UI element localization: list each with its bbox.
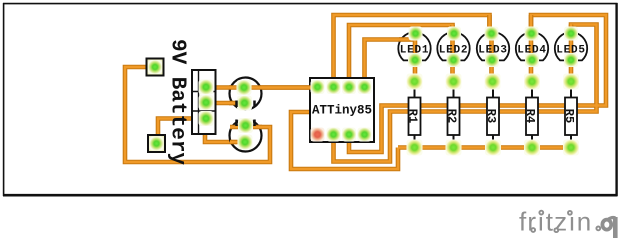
- wire: cap C2 feedthrough re-draw: [230, 140, 245, 145]
- pad: IC top 4: [358, 80, 372, 94]
- wire: battery pad1 to IC pin (net V+) through cap C1 top pad: [206, 85, 318, 90]
- pad: square A center: [148, 60, 162, 74]
- wire: cap C2 feedthrough re-draw: [230, 141, 245, 143]
- wire: LED1 internal: [413, 36, 418, 81]
- resistor R2: [445, 81, 460, 147]
- svg-text:9V Battery: 9V Battery: [166, 39, 189, 165]
- LED2 body: [437, 32, 469, 60]
- wire: resistor common rail: [398, 145, 571, 150]
- square pad A: [147, 59, 164, 76]
- IC U1 ATTiny85 body: [310, 78, 374, 142]
- svg-text:LED1: LED1: [400, 45, 430, 57]
- wire: IC pad2 bottom to LED5 via right side run: [334, 25, 597, 162]
- LED4 body: [516, 32, 548, 60]
- pad: IC bottom 4: [358, 128, 372, 142]
- pad: cap C2 bottom: [238, 135, 253, 150]
- wire: LED3 internal: [488, 15, 490, 34]
- wire: resistor common rail: [398, 146, 571, 148]
- resistor R3: [484, 81, 499, 147]
- pad: square B center: [150, 137, 164, 151]
- LED bodies (circle with flat bottom): [398, 32, 587, 60]
- pad: LED5 pads: [564, 27, 578, 41]
- board frame border: [3, 3, 618, 196]
- wire: battery pad2 to cap C1 bottom pad: [206, 102, 244, 104]
- wire: LED5 internal: [569, 25, 574, 82]
- pad: IC top 3: [342, 80, 356, 94]
- wire: LED1 internal: [414, 36, 416, 81]
- wire: IC top pad3 to LED2: [349, 25, 453, 87]
- wire: IC pad3 bottom to LED4 via outer right run: [349, 15, 606, 152]
- svg-text:LED3: LED3: [478, 45, 508, 57]
- wire: LED5 internal: [570, 25, 572, 82]
- svg-text:LED2: LED2: [439, 45, 469, 57]
- wire: LED1 feed re-draw: [399, 38, 415, 40]
- pad: IC bottom 1 (pin1, unrouted red): [311, 128, 325, 142]
- pad: LED4 pads: [525, 27, 539, 41]
- wire: IC top pad4 to LED1: [365, 40, 416, 88]
- capacitor C1 body: [230, 78, 262, 110]
- svg-text:R5: R5: [562, 109, 576, 123]
- svg-text:ATTiny85: ATTiny85: [312, 104, 372, 118]
- battery connector J1 body: [192, 70, 216, 134]
- pad: battery 2: [199, 95, 214, 110]
- pad: IC top 2: [327, 80, 341, 94]
- svg-text:R3: R3: [484, 109, 498, 123]
- pad: cap C2 top: [238, 118, 253, 133]
- g stem: [613, 217, 618, 238]
- wire: LED2 internal: [451, 25, 453, 81]
- pad: IC bottom 3: [342, 128, 356, 142]
- capacitor C2 body: [230, 120, 262, 152]
- wire: battery pad2 to cap C1 bottom pad: [206, 101, 244, 106]
- wire: LED2 internal: [450, 25, 455, 81]
- pad: LED1 anode / cathode / junction: [409, 27, 423, 41]
- wire: pad B up and to battery pad3: [158, 119, 205, 137]
- pad: battery 1: [199, 80, 214, 95]
- g bowl: [602, 220, 611, 230]
- pad: LED2 pads: [447, 27, 461, 41]
- z foot ring: [554, 228, 558, 232]
- wire: pad B up and to battery pad3: [158, 119, 205, 137]
- svg-text:LED5: LED5: [556, 45, 586, 57]
- LED anode-to-resistor vertical traces (drawn over bodies): [229, 15, 571, 142]
- svg-text:R2: R2: [445, 109, 459, 123]
- svg-text:LED4: LED4: [517, 45, 547, 57]
- svg-text:R1: R1: [406, 109, 420, 123]
- wire: cap C1 feedthrough re-draw: [229, 85, 318, 90]
- wire: LED3 internal: [487, 15, 492, 34]
- wire: IC pad2 bottom to LED5 via right side run: [334, 25, 597, 162]
- resistor R1: [406, 81, 421, 147]
- resistor R5: [562, 81, 577, 147]
- wire: LED4 internal: [530, 15, 532, 81]
- fritzing logo: [519, 207, 615, 239]
- wire: IC pad3 bottom to LED4 via outer right run: [349, 15, 606, 152]
- pad: LED3 pads: [485, 27, 499, 41]
- i dot rings: [539, 211, 543, 215]
- pad: battery 3: [199, 111, 214, 126]
- svg-text:R4: R4: [523, 109, 537, 123]
- g tail ring: [596, 227, 600, 231]
- pad: cap C1 top: [237, 80, 252, 95]
- wire: LED1 feed re-draw: [399, 37, 415, 42]
- wire: IC top pad4 to LED1: [365, 40, 416, 88]
- wire: pad A to cap C2 top pad (via left loop): [125, 67, 270, 162]
- cap C2 polarity ticks: [237, 120, 255, 127]
- pad: resistor bottoms: [407, 140, 423, 156]
- wire: battery pad3 down and to cap C2 bottom pad: [205, 117, 245, 142]
- wire: battery pad1 to IC pin (net V+) through cap C1 top pad: [206, 86, 318, 88]
- wire: cap C1 feedthrough re-draw: [229, 86, 318, 88]
- cap C1 polarity ticks: [237, 101, 255, 108]
- wire: IC top pad2 to LED3: [334, 15, 490, 87]
- LED5 body: [555, 32, 587, 60]
- pad: IC bottom 2: [327, 128, 341, 142]
- resistor R4: [523, 81, 538, 147]
- wire: IC top pad2 to LED3: [334, 15, 490, 87]
- wire: pad A to cap C2 top pad (via left loop): [125, 67, 270, 162]
- pad: cap C1 bottom: [237, 96, 252, 111]
- wire: ground return - IC left stub down and to resistor common rail: [291, 112, 398, 169]
- r foot ring: [531, 228, 535, 232]
- wire: battery pad3 down and to cap C2 bottom pad: [205, 117, 245, 142]
- LED1 body: [398, 32, 430, 60]
- wire: IC top pad3 to LED2: [349, 25, 453, 87]
- LED3 body: [477, 32, 509, 60]
- wire: ground return - IC left stub down and to resistor common rail: [291, 112, 398, 169]
- wire: LED4 internal: [529, 15, 534, 81]
- pad: IC top 1: [311, 80, 325, 94]
- square pad B: [148, 135, 165, 152]
